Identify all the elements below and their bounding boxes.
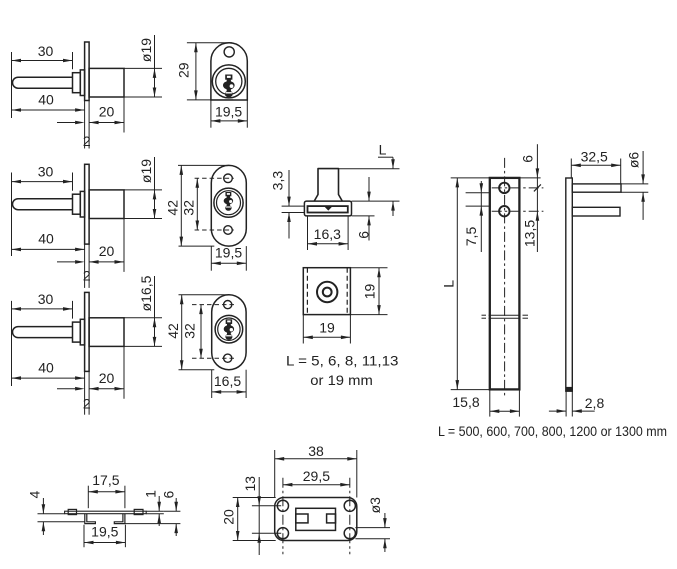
lock row1 front view: cylinder outer ring (212, 65, 245, 98)
lock row2 front view: oval face plate (211, 165, 246, 246)
svg-text:38: 38 (308, 443, 324, 459)
svg-text:2: 2 (83, 396, 91, 412)
svg-text:20: 20 (99, 104, 115, 120)
svg-text:6: 6 (160, 490, 176, 498)
striker bolt side view: base plate (304, 201, 351, 216)
dim 7,5 bar: ext lines (466, 192, 490, 194)
dim 2 row3: flange thickness ext lines (84, 371, 86, 414)
dim 16,5 row3: ext lines (211, 370, 213, 398)
mounting plate top view: right tab (327, 514, 336, 523)
dim 19 catch horizontal (303, 336, 350, 338)
strike plate side view: hat channel left wall (85, 514, 96, 524)
dim 3,3 striker: ext lines (282, 205, 305, 207)
svg-text:19: 19 (362, 284, 378, 300)
lock row3 front view: top screw hole (224, 301, 232, 309)
striker bolt side view: center notch mark (325, 207, 331, 210)
catch plate face view: grommet inner circle (323, 288, 332, 297)
lock row3 front view: cylinder inner ring (218, 318, 240, 340)
dim 32 row2 (196, 178, 198, 230)
catch plate face view: grommet outer circle (317, 282, 337, 302)
dim 30 row1: extension lines (11, 52, 13, 118)
dim 4 hat (42, 498, 44, 514)
dim 30 row3: extension lines (11, 301, 13, 386)
dim diam 6 rod (642, 151, 644, 184)
dim 20 row3: extension line (123, 346, 125, 398)
dim 32 row3: dashed ext lines through screw holes (192, 304, 236, 306)
dim 29,5 plate (283, 484, 350, 486)
dim 40 row1 (12, 109, 85, 111)
locking bar front view: break lines (482, 314, 487, 316)
dim diam 6 rod: ext lines (621, 183, 648, 185)
lock row3 side view: latch bolt (13, 327, 73, 338)
svg-text:13,5: 13,5 (522, 220, 538, 247)
dim &#248;19 row1: ext lines (123, 67, 125, 69)
locking bar front view: lower hole centerline (492, 210, 544, 212)
svg-text:20: 20 (99, 370, 115, 386)
dim 2 row2: flange thickness ext lines (84, 244, 86, 288)
dim 30 row2 (12, 181, 73, 183)
svg-text:29,5: 29,5 (303, 468, 330, 484)
svg-text:40: 40 (38, 231, 54, 247)
lock row2 front view: top screw hole (224, 174, 233, 183)
lock row1 side view: latch bolt (13, 77, 73, 88)
lock row1 front view: cylinder inner ring (216, 68, 242, 94)
svg-text:2: 2 (83, 268, 91, 284)
svg-text:7,5: 7,5 (463, 227, 479, 247)
dim 17,5 hat (88, 491, 125, 493)
svg-text:19,5: 19,5 (91, 524, 118, 540)
svg-text:ø6: ø6 (625, 152, 641, 169)
svg-text:or 19 mm: or 19 mm (310, 372, 373, 388)
locking bar side view: bar end cap (566, 387, 573, 391)
svg-text:30: 30 (38, 291, 54, 307)
svg-text:32: 32 (180, 200, 196, 216)
dim 6 bar (536, 144, 538, 178)
dim 42 row2: ext lines (178, 164, 229, 166)
dim 42 row3: ext lines (179, 294, 229, 296)
dim 32,5 rod: ext lines (570, 159, 572, 179)
strike plate side view: hat channel right wall (114, 514, 125, 524)
lock row2 side view: latch bolt (13, 199, 73, 210)
svg-text:6: 6 (355, 231, 371, 239)
dim &#248;16,5 row3 (154, 276, 156, 346)
svg-text:19,5: 19,5 (215, 245, 242, 261)
locking bar front view: upper hole (499, 183, 509, 193)
svg-text:1: 1 (142, 490, 158, 498)
mounting plate top view: hole top-left (277, 500, 288, 511)
strike plate side view: flat plate (65, 511, 147, 514)
dim 15,8 bar (490, 410, 520, 412)
lock row3 front view: bottom screw hole (224, 354, 232, 362)
dim 32 row3 (200, 305, 202, 359)
dim 42 row3 (181, 295, 183, 370)
dim 19,5 row1 (211, 120, 247, 122)
lock row2 front view: cylinder inner ring (217, 191, 241, 215)
svg-text:ø3: ø3 (367, 497, 383, 514)
dim 30 row3 (12, 308, 73, 310)
dim L striker: arrows (392, 157, 394, 169)
dim 6 striker (368, 177, 370, 201)
svg-text:20: 20 (99, 243, 115, 259)
dim 38 plate (275, 458, 357, 460)
lock row3 side view: cylinder body (89, 318, 124, 347)
svg-text:29: 29 (176, 62, 192, 78)
dim 19,5 row1: ext lines (210, 100, 212, 128)
svg-text:42: 42 (165, 200, 181, 216)
key silhouette in cylinder (226, 319, 232, 324)
lock row3 side view: body collar (80, 319, 84, 345)
dim 15,8 bar: ext lines (489, 390, 491, 417)
dim 6 hat: ext lines (164, 510, 181, 512)
dim 42 row2 (180, 165, 182, 246)
lock row2 side view: bolt guide block (73, 194, 81, 214)
catch plate face view: square body (303, 268, 350, 315)
dim 4 hat: ext lines (38, 513, 65, 515)
striker bolt side view: slot opening (308, 206, 348, 212)
svg-text:19: 19 (319, 320, 335, 336)
lock row1 side view: cylinder body (89, 68, 124, 97)
svg-text:2: 2 (83, 133, 91, 149)
dim 6 hat (175, 498, 177, 511)
dim 16,3 striker: ext lines (307, 216, 309, 250)
key silhouette in cylinder (225, 192, 231, 196)
svg-text:30: 30 (38, 43, 54, 59)
svg-text:6: 6 (519, 155, 535, 163)
mounting plate top view: left tab (296, 514, 308, 523)
dim &#248;19 row2: ext lines (123, 189, 125, 191)
dim 19,5 hat (84, 542, 125, 544)
lock row1 front view: top screw hole (224, 47, 234, 57)
dim 7,5 bar (480, 181, 482, 252)
dim 19 catch vertical: ext lines (350, 267, 387, 269)
svg-text:17,5: 17,5 (92, 472, 119, 488)
dim 20 row1: extension line (123, 97, 125, 133)
dim 19,5 row2: ext lines (210, 246, 212, 271)
strike plate side view: left lug (68, 509, 76, 514)
dim 29 row1: ext lines (187, 42, 232, 44)
dim 1 hat (158, 496, 160, 511)
locking bar side view: upper rod (572, 184, 621, 192)
strike plate side view: right lug (134, 509, 143, 514)
dim 13,5 bar (536, 178, 538, 252)
svg-text:13: 13 (242, 476, 258, 492)
dim 6 striker: ext line (352, 215, 375, 217)
lock row1 side view: body collar (80, 70, 84, 96)
dim 2,8 bar (549, 410, 566, 412)
dim 19 catch vertical (378, 268, 380, 315)
svg-text:32: 32 (182, 323, 198, 339)
svg-text:20: 20 (221, 509, 237, 525)
lock row1 side view: mounting flange (85, 42, 90, 101)
dim 2 row1: flange thickness ext lines (84, 101, 86, 149)
svg-text:L: L (379, 142, 387, 158)
lock row2 front view: cylinder outer ring (214, 188, 243, 217)
locking bar side view: thin bar (566, 178, 573, 391)
lock row1 front view: oval face plate (211, 43, 247, 100)
dim 17,5 hat: ext lines (87, 486, 89, 509)
dim 20 row3 (89, 388, 124, 390)
lock row3 front view: cylinder outer ring (215, 315, 243, 343)
dim 19,5 row2 (211, 262, 246, 264)
dim 30 row1 (12, 60, 73, 62)
svg-text:30: 30 (38, 164, 54, 180)
dim L bar: ext lines (451, 177, 490, 179)
mounting plate top view: hole top-right (344, 500, 355, 511)
dim 2 row2 (57, 261, 75, 263)
dim 29 row1 (195, 43, 197, 100)
lock row3 side view: mounting flange (85, 292, 90, 371)
catch plate face view: side fold dashed lines (306, 268, 308, 315)
lock row2 side view: cylinder body (89, 190, 124, 219)
dim 20 row2 (89, 261, 124, 263)
dim 32 row2: dashed ext lines through screw holes (195, 177, 234, 179)
svg-text:16,3: 16,3 (314, 226, 341, 242)
dim 20 row2: extension line (123, 219, 125, 272)
dim 2 row3 (57, 388, 75, 390)
svg-text:16,5: 16,5 (214, 373, 241, 389)
lock row3 side view: bolt guide block (73, 322, 81, 342)
dim 30 row2: extension lines (11, 173, 13, 257)
dim 20 row1 (89, 122, 124, 124)
svg-text:15,8: 15,8 (452, 394, 479, 410)
locking bar front view: lower hole (499, 206, 509, 216)
locking bar front view: bar body (490, 178, 520, 390)
dim 40 row2 (12, 248, 85, 250)
dim 6 / 13,5 shared oblique tick (534, 184, 541, 191)
dim 2,8 bar: ext lines (565, 391, 567, 416)
svg-text:L = 5, 6, 8, 11,13: L = 5, 6, 8, 11,13 (286, 353, 399, 369)
svg-text:4: 4 (27, 490, 43, 498)
dim 3,3 striker (288, 170, 290, 206)
lock row2 side view: body collar (80, 191, 84, 217)
locking bar front view: vertical centerline (504, 158, 506, 398)
svg-text:3,3: 3,3 (270, 171, 286, 191)
svg-text:32,5: 32,5 (581, 149, 608, 165)
dim 20 plate (237, 498, 239, 541)
striker bolt side view: stem (314, 169, 342, 202)
svg-text:40: 40 (38, 359, 54, 375)
dim L bar (456, 178, 458, 390)
mounting plate top view: hole bottom-left (277, 528, 288, 539)
svg-text:ø16,5: ø16,5 (138, 275, 154, 311)
dim &#248;19 row1 (154, 35, 156, 97)
dim 1 hat: ext lines (146, 510, 164, 512)
lock row3 front view: oval face plate (212, 295, 246, 370)
dim &#248;16,5 row3: ext lines (123, 317, 125, 319)
dim 13 plate (258, 477, 260, 555)
mounting plate top view: left hole centerline (282, 478, 284, 555)
svg-text:L: L (441, 280, 457, 288)
svg-text:40: 40 (38, 92, 54, 108)
lock row2 side view: mounting flange (85, 164, 90, 244)
svg-text:ø19: ø19 (138, 159, 154, 183)
mounting plate top view: plate outline (275, 498, 357, 541)
locking bar side view: lower rod (572, 207, 620, 216)
dim 6 bar: ext line bar top (519, 177, 540, 179)
dim 38 plate: ext lines (274, 450, 276, 498)
key silhouette in cylinder (225, 75, 232, 80)
dim 16,5 row3 (212, 391, 246, 393)
svg-text:ø19: ø19 (138, 38, 154, 62)
dim 13 plate: ext lines (252, 505, 281, 507)
dim L striker: ext lines (339, 168, 400, 170)
dim 40 row3 (12, 377, 85, 379)
svg-text:42: 42 (165, 323, 181, 339)
dim 2 row1 (57, 122, 75, 124)
dim diam 3 plate (384, 513, 386, 528)
mounting plate top view: hole bottom-right (344, 528, 355, 539)
dim 19,5 hat: ext lines (83, 525, 85, 548)
locking bar front view: upper hole centerline (492, 187, 544, 189)
dim 19 catch horizontal: ext lines (302, 315, 304, 344)
dim 20 plate: ext lines (233, 497, 276, 499)
lock row2 front view: bottom screw hole (224, 226, 233, 235)
dim 32,5 rod (571, 164, 620, 166)
dim 16,3 striker (308, 243, 349, 245)
svg-text:2,8: 2,8 (585, 395, 605, 411)
dim diam 3 plate: ext lines (355, 527, 390, 529)
mounting plate top view: central cutout (296, 508, 336, 530)
mounting plate top view: right hole centerline (349, 478, 351, 555)
dim &#248;19 row2 (154, 157, 156, 219)
svg-text:19,5: 19,5 (215, 104, 242, 120)
svg-text:L = 500, 600, 700, 800, 1200 o: L = 500, 600, 700, 800, 1200 or 1300 mm (438, 423, 667, 439)
lock row1 side view: bolt guide block (73, 73, 81, 93)
